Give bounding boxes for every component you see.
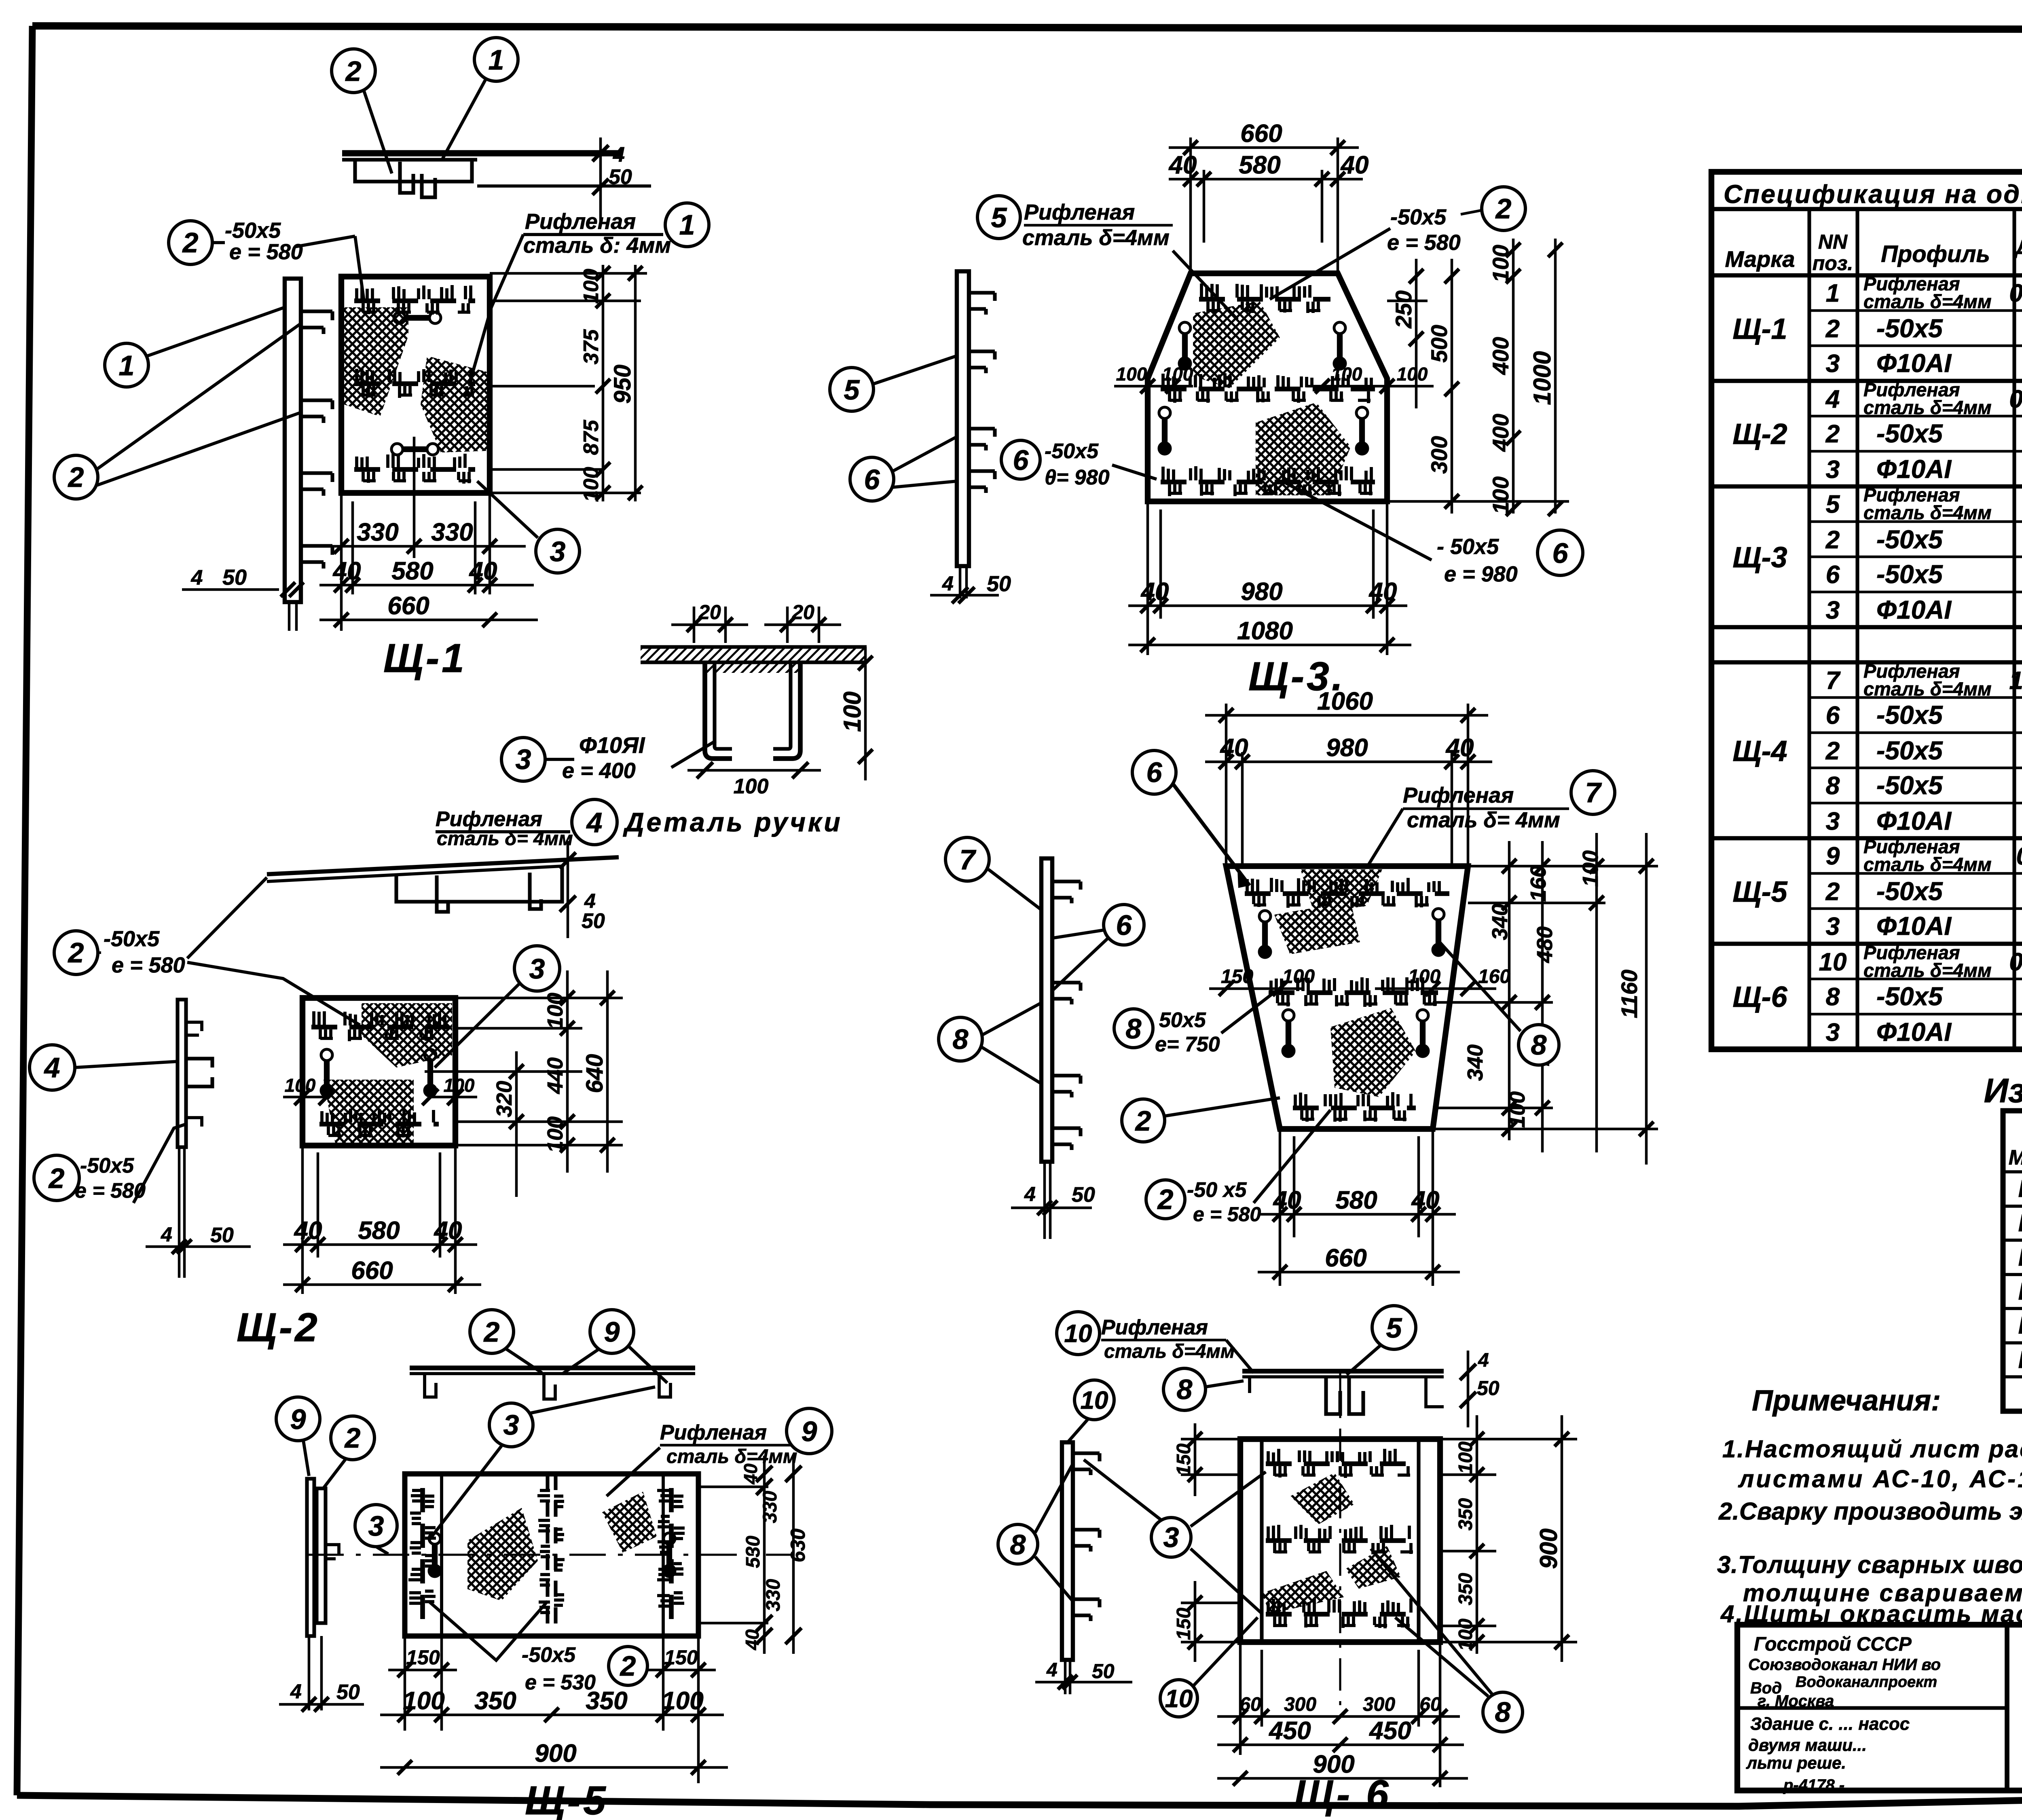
svg-text:630: 630 xyxy=(787,1528,809,1562)
svg-text:4: 4 xyxy=(44,1052,60,1083)
svg-text:2: 2 xyxy=(344,1422,361,1454)
svg-text:сталь δ: 4мм: сталь δ: 4мм xyxy=(523,233,671,258)
svg-text:6: 6 xyxy=(864,464,880,495)
svg-text:40: 40 xyxy=(332,557,361,585)
svg-text:1000: 1000 xyxy=(1529,351,1556,405)
svg-text:300: 300 xyxy=(1426,436,1452,473)
svg-text:-50х5: -50х5 xyxy=(1876,736,1943,765)
svg-text:8: 8 xyxy=(1126,1013,1142,1044)
svg-text:40: 40 xyxy=(434,1217,462,1245)
svg-text:-50х5: -50х5 xyxy=(1876,419,1943,448)
svg-text:2: 2 xyxy=(620,1650,636,1682)
svg-text:300: 300 xyxy=(1363,1694,1395,1715)
svg-text:100: 100 xyxy=(1282,966,1315,987)
svg-text:Ф10АІ: Ф10АІ xyxy=(1876,911,1952,941)
svg-text:640: 640 xyxy=(582,1054,608,1093)
svg-text:NN: NN xyxy=(1818,230,1848,253)
svg-text:3: 3 xyxy=(550,536,566,567)
svg-text:Щ-5: Щ-5 xyxy=(2018,1312,2022,1339)
svg-text:50: 50 xyxy=(336,1680,360,1704)
svg-text:Щ-1: Щ-1 xyxy=(2018,1175,2022,1202)
svg-text:3: 3 xyxy=(1826,456,1840,484)
svg-text:е = 580: е = 580 xyxy=(229,240,303,264)
svg-text:-50х5: -50х5 xyxy=(1876,771,1943,800)
svg-text:580: 580 xyxy=(358,1217,400,1245)
svg-text:40: 40 xyxy=(1273,1186,1301,1214)
svg-text:сталь δ=4мм: сталь δ=4мм xyxy=(1863,397,1992,418)
svg-text:10: 10 xyxy=(1165,1685,1193,1713)
svg-text:3: 3 xyxy=(1826,350,1840,378)
svg-text:900: 900 xyxy=(535,1740,576,1767)
svg-text:4: 4 xyxy=(1046,1659,1058,1681)
svg-text:е = 530: е = 530 xyxy=(525,1671,596,1694)
svg-text:980: 980 xyxy=(1241,578,1282,606)
svg-text:-50х5: -50х5 xyxy=(1876,525,1943,554)
svg-text:450: 450 xyxy=(1368,1717,1411,1745)
svg-text:980: 980 xyxy=(1326,734,1368,762)
svg-text:100: 100 xyxy=(1162,364,1193,385)
svg-text:4: 4 xyxy=(191,566,203,590)
svg-text:4: 4 xyxy=(586,807,603,838)
svg-text:340: 340 xyxy=(1463,1044,1487,1081)
svg-text:4: 4 xyxy=(161,1223,172,1246)
svg-text:Примечания:: Примечания: xyxy=(1752,1385,1941,1417)
svg-text:8: 8 xyxy=(1177,1374,1193,1405)
svg-text:660: 660 xyxy=(351,1257,393,1285)
svg-text:-50х5: -50х5 xyxy=(522,1643,576,1667)
svg-text:Щ-4: Щ-4 xyxy=(2018,1278,2022,1305)
svg-text:1.Настоящий лист рассматривать: 1.Настоящий лист рассматривать совместно… xyxy=(1722,1435,2022,1463)
svg-text:5: 5 xyxy=(1826,490,1840,518)
svg-text:500: 500 xyxy=(1426,325,1452,362)
svg-text:60: 60 xyxy=(1239,1694,1261,1715)
svg-text:-50х5: -50х5 xyxy=(80,1154,134,1177)
svg-text:530: 530 xyxy=(742,1536,764,1568)
svg-text:2: 2 xyxy=(68,461,84,493)
svg-text:Рифленая: Рифленая xyxy=(1024,200,1135,224)
svg-text:0,42м²: 0,42м² xyxy=(2009,385,2022,413)
svg-text:350: 350 xyxy=(1455,1573,1476,1605)
svg-text:- 50х5: - 50х5 xyxy=(1437,535,1499,559)
svg-text:Ф10АІ: Ф10АІ xyxy=(1876,1017,1952,1046)
svg-text:6: 6 xyxy=(1013,444,1029,476)
svg-text:250: 250 xyxy=(1391,290,1416,328)
svg-text:7: 7 xyxy=(1585,777,1602,808)
svg-text:-50х5: -50х5 xyxy=(1876,314,1943,343)
svg-text:Щ-3: Щ-3 xyxy=(1732,541,1787,574)
svg-text:Союзводоканал НИИ во: Союзводоканал НИИ во xyxy=(1748,1656,1941,1674)
svg-text:150: 150 xyxy=(1173,1444,1195,1476)
svg-text:580: 580 xyxy=(1239,151,1280,179)
svg-text:Деталь ручки: Деталь ручки xyxy=(623,807,843,837)
svg-text:10: 10 xyxy=(1081,1387,1108,1414)
svg-text:2: 2 xyxy=(345,55,362,87)
svg-text:580: 580 xyxy=(1335,1186,1377,1214)
svg-text:θ= 980: θ= 980 xyxy=(1045,466,1110,489)
svg-text:160: 160 xyxy=(1478,966,1510,987)
svg-text:2: 2 xyxy=(68,937,84,968)
svg-text:7: 7 xyxy=(960,844,977,875)
svg-text:6: 6 xyxy=(1826,702,1840,729)
svg-text:40: 40 xyxy=(1411,1186,1440,1214)
svg-text:-50х5: -50х5 xyxy=(225,218,281,243)
svg-text:6: 6 xyxy=(1146,757,1163,788)
svg-text:г. Москва: г. Москва xyxy=(1758,1692,1834,1710)
svg-text:40: 40 xyxy=(294,1217,322,1245)
svg-text:Щ-1: Щ-1 xyxy=(383,636,467,681)
svg-text:-50х5: -50х5 xyxy=(1390,205,1447,229)
svg-text:льти реше.: льти реше. xyxy=(1746,1753,1846,1772)
svg-text:Щ-2: Щ-2 xyxy=(1732,418,1787,450)
svg-text:2: 2 xyxy=(1825,315,1840,343)
svg-text:40: 40 xyxy=(1220,734,1248,762)
svg-text:330: 330 xyxy=(431,518,473,546)
svg-text:Щ-6: Щ-6 xyxy=(2018,1346,2022,1373)
svg-text:Рифленая: Рифленая xyxy=(1403,783,1514,807)
svg-text:3: 3 xyxy=(1826,807,1840,835)
svg-text:3: 3 xyxy=(1826,596,1840,624)
svg-text:350: 350 xyxy=(586,1687,627,1715)
svg-text:2: 2 xyxy=(483,1316,500,1348)
svg-text:9: 9 xyxy=(802,1416,817,1447)
svg-text:5: 5 xyxy=(991,202,1007,233)
svg-text:2: 2 xyxy=(1825,420,1840,448)
svg-text:1080: 1080 xyxy=(1237,617,1293,645)
svg-text:7: 7 xyxy=(1826,667,1841,695)
svg-text:е = 580: е = 580 xyxy=(112,953,185,977)
svg-text:40: 40 xyxy=(1368,578,1397,606)
svg-text:сталь δ=4мм: сталь δ=4мм xyxy=(1863,854,1992,875)
svg-text:50х5: 50х5 xyxy=(1159,1008,1206,1032)
svg-text:50: 50 xyxy=(609,165,632,189)
svg-text:Ф10АІ: Ф10АІ xyxy=(1876,454,1952,484)
svg-text:1: 1 xyxy=(1826,279,1840,307)
svg-text:100: 100 xyxy=(403,1687,444,1715)
svg-text:0,6м²: 0,6м² xyxy=(2016,842,2022,870)
svg-text:Марка: Марка xyxy=(1725,246,1795,272)
svg-text:100: 100 xyxy=(543,1116,567,1153)
svg-text:Ф10АІ: Ф10АІ xyxy=(1876,806,1952,835)
svg-text:10: 10 xyxy=(1819,948,1847,976)
svg-text:40: 40 xyxy=(1340,151,1369,179)
svg-text:8: 8 xyxy=(953,1023,969,1055)
svg-text:450: 450 xyxy=(1268,1717,1311,1745)
svg-text:660: 660 xyxy=(1325,1244,1366,1272)
svg-text:9: 9 xyxy=(604,1316,620,1348)
svg-text:40: 40 xyxy=(1445,734,1474,762)
svg-text:двумя маши...: двумя маши... xyxy=(1748,1735,1867,1754)
svg-text:3.Толщину сварных швов принима: 3.Толщину сварных швов принимать по наим… xyxy=(1717,1551,2022,1578)
svg-text:1060: 1060 xyxy=(1317,687,1373,715)
svg-text:е= 750: е= 750 xyxy=(1155,1033,1220,1056)
svg-text:Щ- 6: Щ- 6 xyxy=(1294,1772,1391,1817)
svg-text:Щ-5: Щ-5 xyxy=(525,1778,608,1820)
svg-text:40: 40 xyxy=(1140,578,1169,606)
svg-text:4: 4 xyxy=(1024,1183,1036,1205)
svg-text:Щ-4: Щ-4 xyxy=(1732,735,1787,767)
svg-text:сталь δ=4мм: сталь δ=4мм xyxy=(1863,502,1992,523)
svg-text:Профиль: Профиль xyxy=(1881,241,1990,267)
svg-text:330: 330 xyxy=(759,1491,781,1523)
svg-text:440: 440 xyxy=(543,1057,567,1094)
svg-text:100: 100 xyxy=(580,467,603,502)
svg-text:4: 4 xyxy=(942,572,954,595)
svg-text:100: 100 xyxy=(543,993,567,1029)
svg-text:660: 660 xyxy=(1240,120,1282,148)
svg-text:Ф10АІ: Ф10АІ xyxy=(1876,349,1952,378)
svg-text:8: 8 xyxy=(1010,1529,1026,1560)
svg-text:400: 400 xyxy=(1488,337,1513,375)
svg-text:Щ-5: Щ-5 xyxy=(1732,876,1787,908)
svg-text:Рифленая: Рифленая xyxy=(436,807,542,831)
svg-text:100: 100 xyxy=(1488,245,1513,282)
svg-text:6: 6 xyxy=(1552,537,1569,569)
svg-text:320: 320 xyxy=(492,1081,516,1117)
svg-text:Спецификация на одну штуку каж: Спецификация на одну штуку каждой марки … xyxy=(1724,180,2022,209)
svg-text:-50х5: -50х5 xyxy=(1876,877,1943,906)
svg-text:330: 330 xyxy=(357,518,398,546)
svg-text:Марка: Марка xyxy=(2009,1146,2022,1169)
svg-text:поз.: поз. xyxy=(1813,252,1853,275)
svg-text:-50х5: -50х5 xyxy=(1876,560,1943,589)
svg-text:Госстрой СССР: Госстрой СССР xyxy=(1754,1634,1912,1655)
svg-text:Водоканалпроект: Водоканалпроект xyxy=(1796,1674,1937,1691)
svg-text:5: 5 xyxy=(1386,1312,1402,1344)
svg-text:10: 10 xyxy=(1064,1320,1092,1348)
svg-text:листами АС-10, АС-16: листами АС-10, АС-16 xyxy=(1738,1465,2022,1492)
svg-text:2: 2 xyxy=(1825,878,1840,906)
svg-text:340: 340 xyxy=(1488,904,1512,940)
svg-text:875: 875 xyxy=(580,420,603,455)
svg-text:60: 60 xyxy=(1419,1694,1441,1715)
svg-text:3: 3 xyxy=(1826,1019,1840,1046)
svg-text:-50 х5: -50 х5 xyxy=(1187,1178,1247,1202)
svg-text:50: 50 xyxy=(1072,1183,1095,1207)
svg-text:Щ-1: Щ-1 xyxy=(1732,313,1787,345)
svg-text:8: 8 xyxy=(1826,772,1840,800)
svg-text:50: 50 xyxy=(1092,1660,1115,1683)
svg-text:9: 9 xyxy=(290,1404,306,1435)
svg-text:50: 50 xyxy=(987,572,1011,596)
svg-text:2: 2 xyxy=(1825,526,1840,554)
svg-text:900: 900 xyxy=(1535,1528,1562,1569)
svg-text:Ф10АІ: Ф10АІ xyxy=(1876,595,1952,624)
svg-text:100: 100 xyxy=(580,269,603,304)
svg-text:150: 150 xyxy=(664,1646,698,1669)
svg-text:100: 100 xyxy=(1488,476,1513,514)
svg-text:150: 150 xyxy=(406,1646,440,1669)
svg-text:е = 400: е = 400 xyxy=(562,759,636,783)
svg-text:2: 2 xyxy=(48,1163,65,1194)
svg-text:-50х5: -50х5 xyxy=(1045,440,1099,463)
svg-text:2: 2 xyxy=(1495,193,1512,224)
svg-text:Ф10ЯІ: Ф10ЯІ xyxy=(579,732,645,758)
svg-text:100: 100 xyxy=(1455,1442,1476,1474)
svg-text:е = 580: е = 580 xyxy=(1387,230,1461,255)
svg-text:р-4178 - ...: р-4178 - ... xyxy=(1783,1776,1863,1794)
svg-text:Щ-2: Щ-2 xyxy=(237,1305,320,1350)
svg-text:40: 40 xyxy=(469,557,497,585)
svg-text:6: 6 xyxy=(1826,561,1840,589)
svg-text:330: 330 xyxy=(763,1579,784,1611)
svg-text:1: 1 xyxy=(679,209,695,241)
svg-text:1: 1 xyxy=(489,44,504,76)
svg-text:480: 480 xyxy=(1533,926,1557,963)
svg-text:100: 100 xyxy=(1116,364,1147,385)
svg-text:100: 100 xyxy=(662,1687,703,1715)
svg-text:40: 40 xyxy=(740,1463,761,1485)
svg-text:950: 950 xyxy=(609,365,636,404)
svg-text:20: 20 xyxy=(791,601,814,624)
svg-text:300: 300 xyxy=(1284,1694,1316,1715)
svg-text:3: 3 xyxy=(529,953,545,985)
svg-text:50: 50 xyxy=(1477,1377,1500,1399)
svg-text:375: 375 xyxy=(580,329,603,365)
svg-text:сталь δ= 4мм: сталь δ= 4мм xyxy=(1407,808,1560,832)
svg-text:Здание с. ... насос: Здание с. ... насос xyxy=(1750,1714,1910,1734)
svg-text:50: 50 xyxy=(222,565,247,590)
svg-text:2: 2 xyxy=(1157,1184,1174,1215)
svg-text:Рифленая: Рифленая xyxy=(660,1421,767,1444)
svg-text:0,63м²: 0,63м² xyxy=(2009,279,2022,307)
svg-text:1160: 1160 xyxy=(1616,970,1642,1018)
svg-text:6: 6 xyxy=(1116,909,1132,941)
svg-text:100: 100 xyxy=(1408,966,1440,987)
svg-text:350: 350 xyxy=(1455,1498,1476,1530)
svg-text:150: 150 xyxy=(1221,966,1253,987)
svg-text:100: 100 xyxy=(444,1075,475,1096)
svg-text:сталь δ=4мм: сталь δ=4мм xyxy=(1863,678,1992,700)
svg-text:580: 580 xyxy=(391,557,433,585)
svg-text:сталь δ=4мм: сталь δ=4мм xyxy=(1104,1341,1235,1362)
svg-text:3: 3 xyxy=(1163,1522,1179,1553)
svg-text:3: 3 xyxy=(503,1409,519,1441)
svg-text:Изготовить: Изготовить xyxy=(1984,1072,2022,1110)
svg-text:Рифленая: Рифленая xyxy=(525,209,636,234)
svg-text:100: 100 xyxy=(1578,850,1603,887)
svg-text:Рифленая: Рифленая xyxy=(1101,1316,1208,1339)
svg-text:50: 50 xyxy=(210,1224,234,1247)
svg-text:сталь δ=4мм: сталь δ=4мм xyxy=(1022,226,1170,250)
svg-text:е = 980: е = 980 xyxy=(1444,562,1518,586)
svg-text:3: 3 xyxy=(1826,913,1840,941)
svg-text:3: 3 xyxy=(368,1510,384,1542)
svg-text:-50х5: -50х5 xyxy=(104,927,160,951)
svg-text:Щ-6: Щ-6 xyxy=(1732,981,1787,1013)
svg-text:4: 4 xyxy=(1825,385,1840,413)
svg-text:8: 8 xyxy=(1826,983,1840,1011)
svg-text:4: 4 xyxy=(613,143,625,167)
svg-text:160: 160 xyxy=(1526,865,1550,902)
svg-text:-50х5: -50х5 xyxy=(1876,982,1943,1011)
svg-text:4: 4 xyxy=(584,890,596,912)
svg-text:3: 3 xyxy=(516,744,531,775)
svg-text:100: 100 xyxy=(1397,364,1428,385)
svg-text:40: 40 xyxy=(1168,151,1197,179)
svg-text:Щ-3: Щ-3 xyxy=(2018,1244,2022,1271)
svg-text:1,03м²: 1,03м² xyxy=(2009,667,2022,695)
svg-text:20: 20 xyxy=(698,601,721,624)
svg-text:-50х5: -50х5 xyxy=(1876,700,1943,729)
svg-text:2.Сварку производить электрода: 2.Сварку производить электродами марки Э… xyxy=(1718,1498,2022,1525)
svg-text:9: 9 xyxy=(1826,842,1840,870)
svg-text:100: 100 xyxy=(734,775,769,798)
svg-text:660: 660 xyxy=(387,592,429,620)
svg-text:150: 150 xyxy=(1173,1608,1195,1640)
svg-text:8: 8 xyxy=(1495,1696,1511,1728)
svg-text:сталь δ=4мм: сталь δ=4мм xyxy=(1863,960,1992,981)
svg-text:Щ-2: Щ-2 xyxy=(2018,1209,2022,1237)
svg-text:1: 1 xyxy=(119,350,135,381)
svg-text:2: 2 xyxy=(1135,1105,1151,1137)
svg-text:5: 5 xyxy=(844,374,860,406)
svg-text:4: 4 xyxy=(290,1680,302,1703)
svg-text:100: 100 xyxy=(1505,1091,1529,1128)
svg-text:сталь δ=4мм: сталь δ=4мм xyxy=(1863,291,1992,312)
svg-text:2: 2 xyxy=(182,227,199,258)
svg-text:100: 100 xyxy=(1455,1619,1476,1651)
svg-text:350: 350 xyxy=(474,1687,516,1715)
svg-text:100: 100 xyxy=(285,1075,316,1096)
svg-text:0,81м²: 0,81м² xyxy=(2009,948,2022,976)
svg-text:сталь δ=4мм: сталь δ=4мм xyxy=(666,1446,797,1467)
svg-text:е = 580: е = 580 xyxy=(1193,1203,1261,1226)
svg-text:50: 50 xyxy=(582,909,605,933)
svg-text:4: 4 xyxy=(1478,1350,1489,1371)
svg-text:40: 40 xyxy=(742,1629,763,1651)
svg-text:400: 400 xyxy=(1488,414,1513,452)
svg-text:100: 100 xyxy=(839,691,866,732)
svg-text:8: 8 xyxy=(1531,1029,1547,1061)
svg-text:2: 2 xyxy=(1825,737,1840,765)
svg-text:100: 100 xyxy=(1331,364,1362,385)
